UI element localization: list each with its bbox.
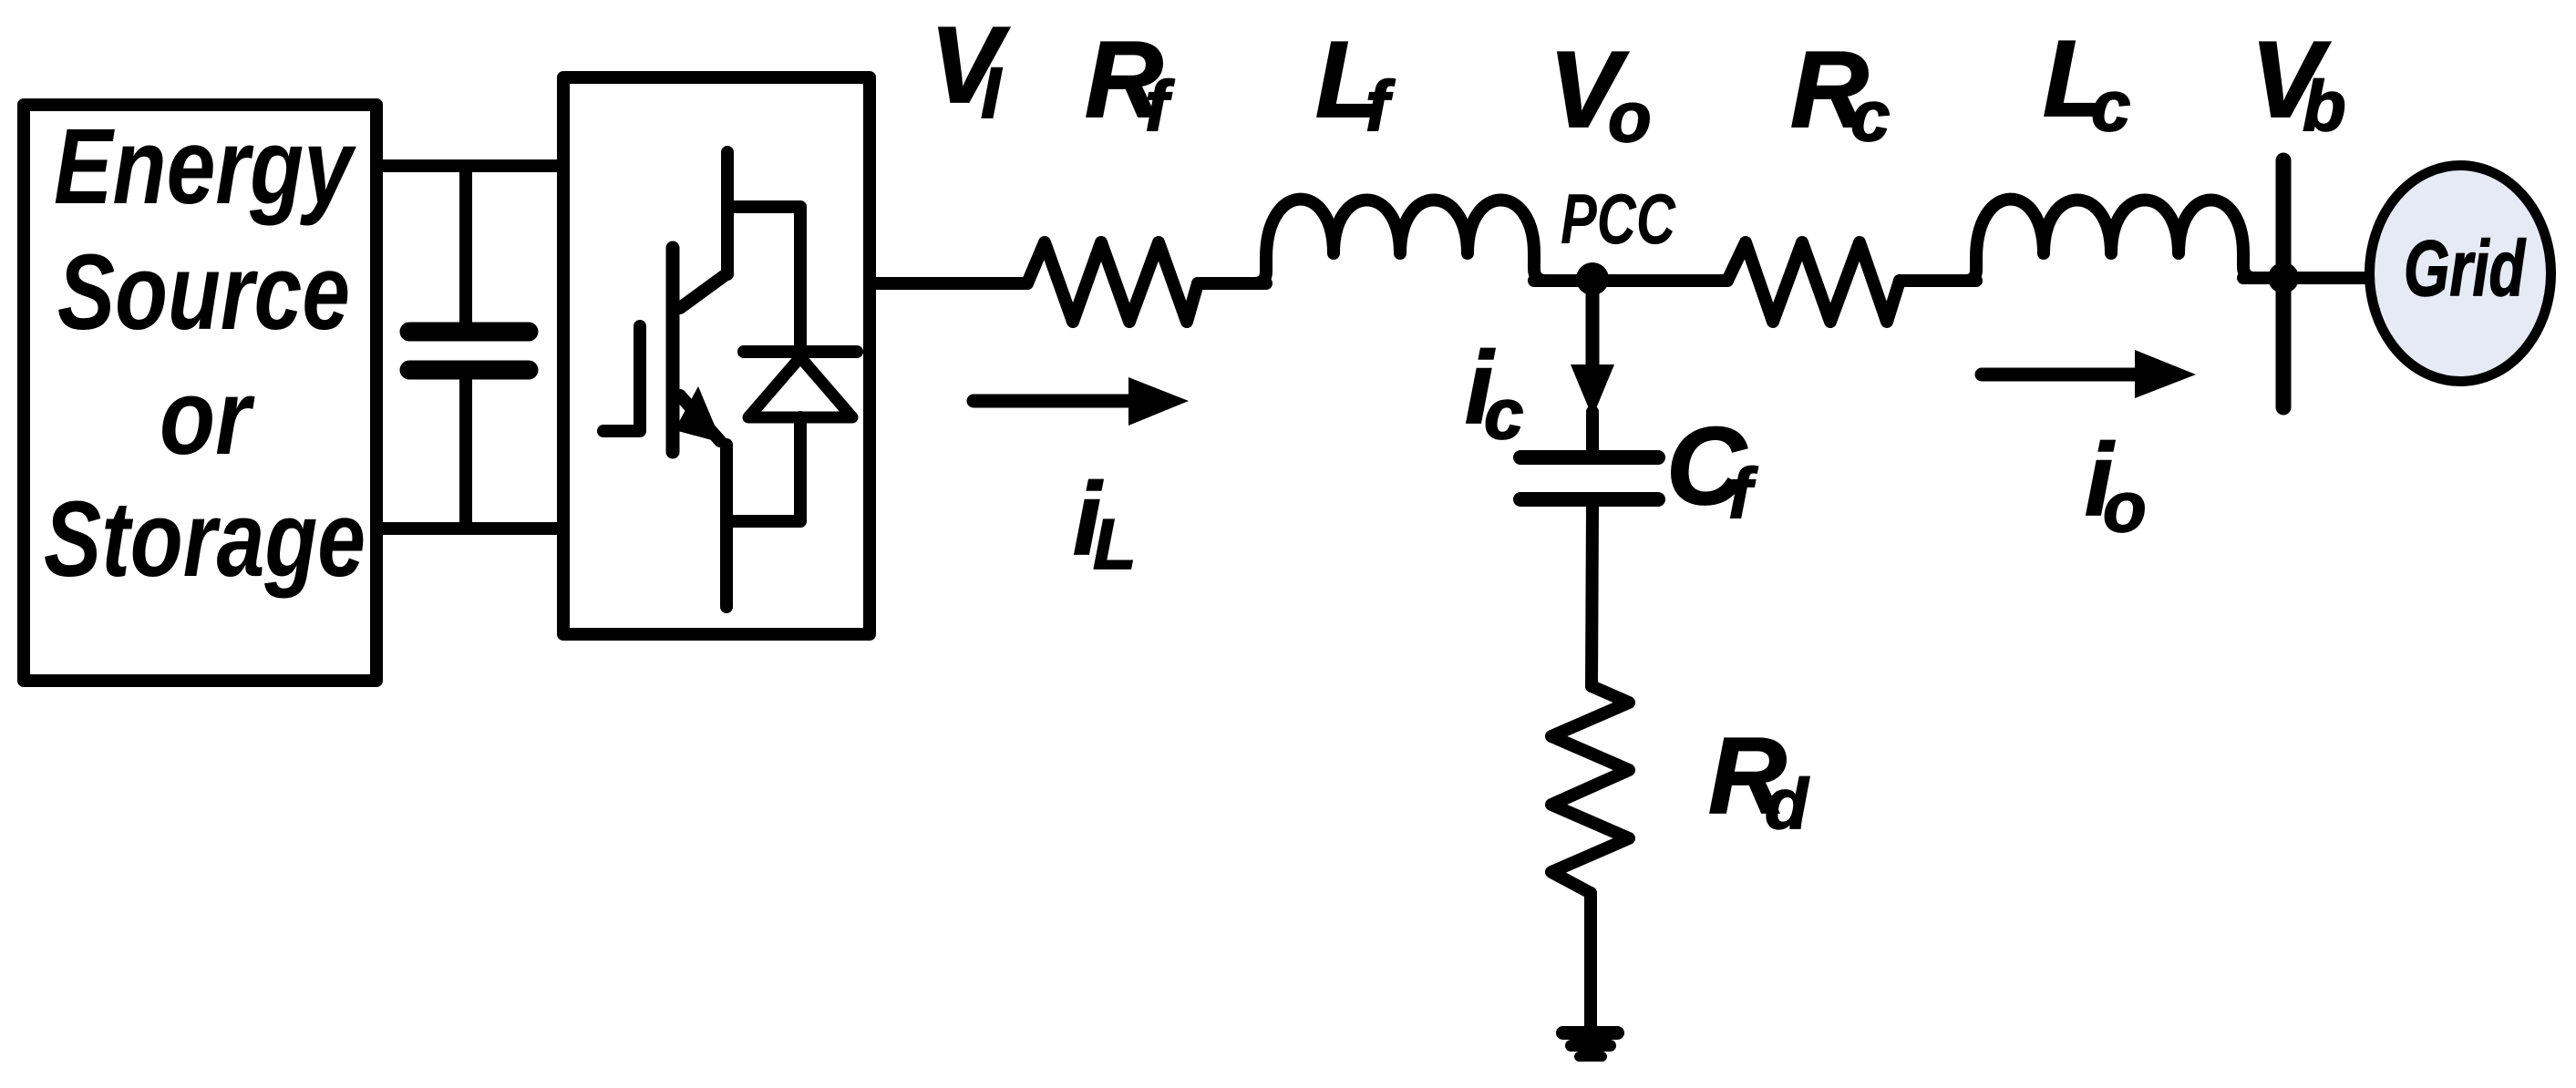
- capacitor Cdc bottom lead: [459, 379, 472, 529]
- wire Lf to Rc: [1534, 274, 1727, 287]
- capacitor Cdc bottom plate: [409, 361, 529, 380]
- label Vo: [1549, 29, 1652, 157]
- IGBT emitter diagonal: [680, 395, 720, 441]
- svg-text:f: f: [1145, 66, 1175, 146]
- grid source circle: [2370, 166, 2551, 382]
- label VI: [930, 5, 1010, 133]
- svg-text:f: f: [1365, 66, 1396, 146]
- wire Lc to grid: [2243, 272, 2365, 284]
- label Vb: [2251, 19, 2346, 146]
- wire inverter output: [870, 277, 1027, 290]
- label Lc: [2043, 18, 2130, 146]
- resistor Rf: [1027, 242, 1198, 322]
- capacitor Cdc top lead: [459, 166, 472, 323]
- svg-text:L: L: [1093, 504, 1137, 584]
- label Energy Source or Storage: [44, 107, 366, 600]
- arrow ic head: [1571, 364, 1614, 417]
- ground bar 3: [1574, 1052, 1607, 1062]
- wire Rd to ground: [1584, 893, 1597, 1026]
- svg-text:c: c: [2091, 66, 2130, 146]
- label io: [2085, 423, 2147, 547]
- IGBT emitter lead: [720, 445, 733, 607]
- arrow io: [1982, 368, 2142, 382]
- resistor Rc: [1727, 242, 1900, 322]
- inductor Lf: [1254, 200, 1546, 283]
- IGBT gate: [603, 326, 640, 431]
- svg-text:c: c: [1484, 374, 1523, 454]
- label ic: [1465, 331, 1523, 454]
- wire dc bottom: [376, 522, 563, 535]
- svg-text:Energy: Energy: [54, 107, 356, 227]
- svg-text:or: or: [160, 357, 255, 477]
- wire ic branch: [1586, 281, 1600, 366]
- svg-text:Storage: Storage: [44, 479, 366, 600]
- inverter box U1: [563, 77, 870, 634]
- svg-text:d: d: [1765, 764, 1809, 844]
- IGBT body bar: [666, 248, 680, 452]
- ground bar 2: [1565, 1040, 1616, 1052]
- label Rf: [1085, 19, 1175, 146]
- svg-text:I: I: [981, 52, 1003, 133]
- label Rd: [1708, 715, 1809, 844]
- svg-text:o: o: [1608, 77, 1652, 157]
- capacitor Cdc top plate: [409, 323, 529, 342]
- wire Rf to Lf: [1198, 277, 1266, 290]
- node Vb dot: [2268, 262, 2299, 293]
- svg-text:o: o: [2103, 467, 2147, 547]
- arrow iL: [974, 395, 1138, 408]
- diode cathode bar: [744, 345, 857, 358]
- box: Energy Source or Storage: [24, 105, 376, 681]
- svg-text:PCC: PCC: [1561, 179, 1676, 259]
- capacitor Cf top plate: [1520, 450, 1658, 465]
- IGBT collector diagonal: [680, 273, 727, 308]
- label Rc: [1790, 29, 1890, 156]
- label Lf: [1315, 19, 1396, 146]
- IGBT collector lead: [721, 152, 734, 274]
- ground bar 1: [1556, 1026, 1624, 1040]
- wire Rc to Lc: [1900, 274, 1976, 287]
- wire Cf to Rd: [1592, 507, 1592, 686]
- svg-text:Grid: Grid: [2404, 225, 2526, 313]
- label Cf: [1666, 404, 1758, 533]
- IGBT emitter arrow: [675, 386, 722, 443]
- svg-text:c: c: [1850, 76, 1890, 156]
- inductor Lc: [1965, 200, 2255, 281]
- wire arrow to Cf: [1586, 412, 1599, 451]
- diode triangle: [748, 357, 852, 417]
- svg-text:b: b: [2303, 66, 2346, 146]
- diode bottom wire: [727, 417, 800, 521]
- wire dc top: [376, 159, 563, 172]
- resistor Rd: [1551, 686, 1629, 893]
- label iL: [1073, 462, 1137, 584]
- capacitor Cf bottom plate: [1520, 492, 1658, 507]
- svg-text:Source: Source: [57, 232, 350, 353]
- svg-text:f: f: [1728, 453, 1758, 533]
- bus bar Vb: [2276, 160, 2292, 407]
- diode top wire: [727, 207, 800, 344]
- node PCC dot: [1576, 262, 1609, 295]
